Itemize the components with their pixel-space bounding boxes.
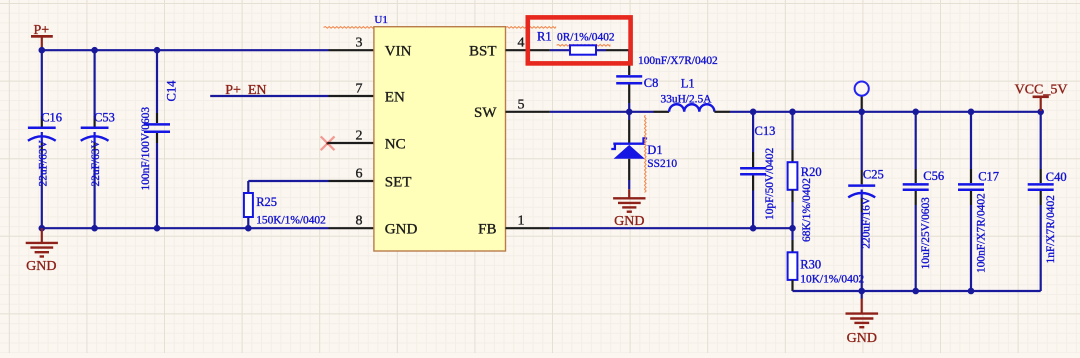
wire R1 to corner (596, 49, 606, 51)
capacitor C25 (848, 112, 884, 291)
pin 4 BST (506, 49, 550, 51)
capacitor C16 (28, 50, 62, 228)
capacitor C13 (740, 112, 776, 228)
node junction R25 bottom (245, 225, 252, 232)
capacitor C53 (81, 50, 115, 228)
wire bottom GND rail (793, 290, 1041, 292)
wire top-left rail (42, 49, 329, 51)
svg-text:100nF/X7R/0402: 100nF/X7R/0402 (638, 55, 718, 67)
svg-text:100nF/100V/0603: 100nF/100V/0603 (140, 107, 152, 191)
power port P+ (31, 23, 53, 49)
node junction P+/C16 (39, 47, 46, 54)
pin 1 FB (506, 227, 550, 229)
svg-text:C16: C16 (41, 111, 62, 125)
node junction C13/FB (750, 225, 757, 232)
node junction C17 top (968, 109, 975, 116)
svg-text:220uF/16V: 220uF/16V (860, 196, 872, 249)
svg-text:22uF/63V: 22uF/63V (37, 140, 49, 187)
node junction C40/VCC (1037, 109, 1044, 116)
power port VCC_5V (1015, 83, 1068, 111)
resistor R30 (788, 228, 865, 291)
wire FB (550, 227, 793, 229)
capacitor C40 (1028, 112, 1067, 291)
svg-text:C56: C56 (923, 169, 944, 183)
svg-text:1nF/X7R/0402: 1nF/X7R/0402 (1045, 195, 1057, 264)
wire EN (210, 95, 328, 97)
highlight rectangle around R1 (528, 17, 631, 63)
svg-text:R20: R20 (801, 165, 822, 179)
wire corner down to C8 (628, 49, 630, 56)
svg-text:C40: C40 (1046, 170, 1067, 184)
svg-text:R30: R30 (800, 258, 821, 272)
svg-text:VIN: VIN (385, 43, 412, 59)
svg-text:C25: C25 (863, 168, 884, 182)
wire VCC rail (730, 111, 1041, 113)
svg-text:GND: GND (26, 259, 56, 274)
svg-text:VCC_5V: VCC_5V (1015, 83, 1068, 98)
wire bottom-left GND rail (42, 227, 329, 229)
wire SET (248, 180, 328, 182)
node junction C17 bottom (968, 288, 975, 295)
svg-text:10K/1%/0402: 10K/1%/0402 (800, 274, 864, 286)
squiggle marker above R1 wire (506, 27, 557, 29)
inductor L1 (654, 77, 731, 112)
svg-text:2: 2 (356, 129, 363, 144)
node junction C56 top (912, 109, 919, 116)
resistor R1 (537, 29, 615, 54)
pin 3 VIN (329, 49, 374, 51)
svg-text:U1: U1 (374, 14, 387, 26)
svg-text:22uF/63V: 22uF/63V (90, 140, 102, 187)
squiggle marker above U1 (left) (324, 27, 375, 29)
svg-text:100nF/X7R/0402: 100nF/X7R/0402 (976, 193, 988, 273)
ground GND (under D1) (613, 189, 645, 229)
svg-text:7: 7 (356, 82, 363, 97)
diode D1 SS210 (611, 112, 677, 190)
svg-text:GND: GND (385, 221, 418, 237)
pin 7 EN (329, 95, 374, 97)
squiggle marker beside D1 (645, 115, 647, 193)
no-connect X on NC (321, 136, 335, 150)
svg-text:SS210: SS210 (647, 158, 677, 170)
node junction TP/C25 top (858, 109, 865, 116)
resistor R20 (788, 112, 822, 242)
capacitor C17 (958, 112, 999, 291)
capacitor C56 (903, 112, 944, 291)
svg-text:150K/1%/0402: 150K/1%/0402 (256, 214, 326, 226)
ground GND (bottom right) (846, 291, 879, 346)
svg-text:4: 4 (518, 36, 525, 51)
svg-text:SW: SW (474, 105, 497, 121)
node junction C14 bottom (154, 225, 161, 232)
svg-text:0R/1%/0402: 0R/1%/0402 (557, 31, 615, 43)
svg-text:1: 1 (518, 214, 525, 229)
node junction C56 bottom (912, 288, 919, 295)
svg-text:FB: FB (478, 221, 496, 237)
svg-text:10uF/25V/0603: 10uF/25V/0603 (920, 197, 932, 269)
svg-text:D1: D1 (647, 143, 662, 157)
svg-text:C14: C14 (164, 80, 178, 102)
wire SW (550, 111, 654, 113)
svg-text:GND: GND (847, 331, 877, 346)
capacitor C8 (616, 55, 718, 112)
node junction C14 top (154, 47, 161, 54)
node junction C53 bottom (91, 225, 98, 232)
svg-text:SET: SET (385, 174, 412, 190)
node junction C13 top (750, 109, 757, 116)
node junction C25 bottom / GND stem (858, 288, 865, 295)
pin 6 SET (329, 180, 374, 182)
svg-text:EN: EN (385, 89, 405, 105)
svg-text:6: 6 (356, 167, 363, 182)
svg-text:33uH/2.5A: 33uH/2.5A (661, 94, 713, 106)
wire BST to R1 (550, 49, 570, 51)
svg-text:10pF/50V/0402: 10pF/50V/0402 (764, 148, 776, 220)
node junction SW/C8/D1 (626, 109, 633, 116)
svg-text:C8: C8 (644, 76, 659, 90)
svg-text:3: 3 (356, 36, 363, 51)
svg-text:GND: GND (614, 214, 644, 229)
svg-text:8: 8 (356, 214, 363, 229)
svg-text:BST: BST (469, 43, 497, 59)
svg-text:L1: L1 (681, 77, 695, 91)
test point (open circle) (855, 82, 869, 112)
node junction C53 top (91, 47, 98, 54)
pin 2 NC (328, 142, 374, 144)
squiggle marker above R1 body (557, 45, 611, 47)
resistor R25 (244, 181, 326, 228)
pin 5 SW (506, 111, 550, 113)
svg-text:5: 5 (518, 97, 525, 112)
ground GND (left) (26, 228, 58, 274)
node junction R20 top (789, 109, 796, 116)
svg-text:C53: C53 (94, 111, 115, 125)
node junction R20/R30/FB (789, 225, 796, 232)
op-amp / regulator IC U1 (374, 14, 506, 251)
svg-text:R25: R25 (256, 195, 277, 209)
svg-text:68K/1%/0402: 68K/1%/0402 (801, 178, 813, 242)
pin 8 GND (329, 227, 374, 229)
svg-text:C17: C17 (978, 169, 999, 183)
node junction C16 bottom (39, 225, 46, 232)
svg-text:C13: C13 (755, 124, 776, 138)
capacitor C14 (140, 50, 178, 228)
svg-text:NC: NC (385, 136, 406, 152)
svg-text:R1: R1 (537, 29, 552, 43)
